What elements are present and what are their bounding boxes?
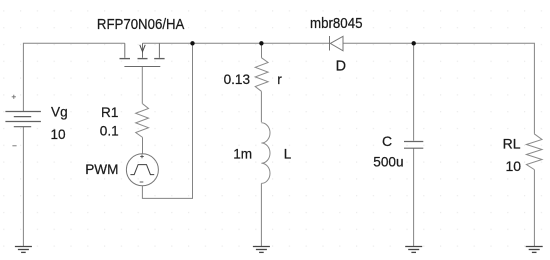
wire PWM bottom loop to source node (142, 43, 192, 198)
ground (L branch) (253, 247, 270, 253)
battery minus mark (12, 145, 16, 147)
svg-text:L: L (284, 146, 292, 161)
svg-text:RFP70N06/HA: RFP70N06/HA (97, 17, 185, 33)
diode D mbr8045 (330, 36, 344, 51)
wire node to resistor r (261, 43, 263, 57)
svg-text:C: C (382, 133, 392, 149)
mosfet Q1 RFP70N06/HA (120, 43, 165, 66)
node C junction dot (412, 41, 416, 45)
svg-text:500u: 500u (373, 154, 403, 169)
wire Vg bottom to ground (22, 127, 24, 247)
wire RL to ground (533, 170, 535, 247)
svg-text:0.1: 0.1 (100, 124, 119, 139)
wire L to ground (260, 183, 262, 246)
svg-text:D: D (336, 58, 346, 74)
ground (RL branch) (526, 247, 543, 253)
ground (C branch) (405, 247, 422, 253)
wire diode anode to RL corner (343, 43, 534, 134)
svg-text:RL: RL (503, 135, 521, 151)
battery plus mark (12, 95, 16, 99)
capacitor C (404, 142, 423, 149)
svg-text:r: r (277, 72, 282, 87)
inductor L (261, 123, 270, 184)
svg-text:0.13: 0.13 (224, 72, 250, 87)
node B junction dot (259, 41, 263, 45)
node A junction dot (190, 41, 194, 45)
PWM source V1 (126, 154, 158, 186)
svg-text:10: 10 (506, 158, 522, 174)
wire body tie to source (143, 42, 160, 44)
svg-text:R1: R1 (101, 105, 118, 120)
wire MOSFET source to top node (159, 42, 329, 44)
ground (Vg branch) (15, 247, 32, 253)
wire node to capacitor C (413, 43, 415, 140)
wire top-left from Vg to MOSFET drain (23, 43, 124, 111)
resistor r (255, 58, 268, 92)
wire R1 to PWM source (142, 137, 144, 154)
resistor R1 (136, 104, 149, 138)
battery Vg (5, 112, 41, 127)
svg-text:1m: 1m (233, 146, 252, 161)
resistor RL (526, 134, 542, 170)
wire C to ground (413, 148, 415, 246)
svg-text:10: 10 (51, 127, 67, 142)
wire r to L (260, 91, 262, 122)
svg-text:mbr8045: mbr8045 (310, 16, 363, 32)
wire gate lead (141, 67, 143, 104)
svg-text:PWM: PWM (85, 162, 118, 177)
svg-text:Vg: Vg (51, 104, 68, 119)
